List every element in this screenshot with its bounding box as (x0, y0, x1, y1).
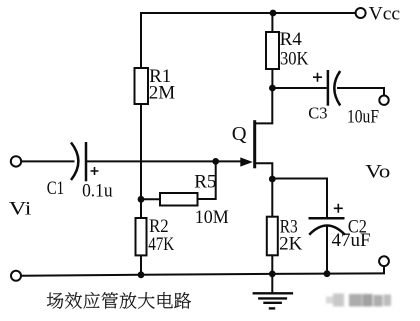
junction node top rail / R4 (270, 10, 277, 17)
resistor R4 (266, 32, 279, 69)
svg-text:2M: 2M (149, 82, 176, 103)
resistor R3 (267, 217, 278, 256)
junction node gate / R5 (212, 158, 219, 165)
resistor R1 (135, 68, 149, 104)
transistor Q gate arrow (240, 157, 253, 166)
wire gate node down to R5 (198, 161, 216, 199)
capacitor C2 positive plate (309, 217, 345, 220)
svg-text:Q: Q (232, 123, 247, 145)
plus sign C3 (313, 73, 322, 82)
plus sign C1 (91, 167, 99, 175)
wire source node down to R3 (271, 179, 273, 217)
ground bar 1 (253, 292, 294, 294)
svg-text:C1: C1 (47, 178, 64, 199)
resistor R5 (160, 193, 198, 206)
svg-text:47K: 47K (148, 234, 174, 255)
wire top supply rail (141, 12, 356, 14)
svg-text:C3: C3 (308, 104, 327, 123)
watermark blurred logo (326, 294, 391, 307)
wire C3 branch from drain node (272, 87, 326, 89)
wire R4 bottom lead (271, 69, 273, 88)
wire gate line C1 to Q (87, 160, 241, 162)
wire R4 top lead (271, 13, 273, 32)
junction node R1 / R2 / R5 (138, 196, 145, 203)
junction node R4 / C3 / drain (269, 85, 276, 92)
svg-text:Vi: Vi (9, 199, 32, 220)
wire source lead of Q (256, 163, 272, 179)
svg-text:0.1u: 0.1u (82, 181, 113, 202)
ground bar 4 (269, 307, 275, 309)
plus sign C2 (334, 204, 343, 213)
wire R5 left lead (141, 198, 160, 200)
terminal C3 output (379, 96, 388, 105)
wire C3 to output terminal (337, 88, 384, 96)
svg-text:R4: R4 (280, 29, 303, 50)
svg-text:47uF: 47uF (332, 230, 371, 251)
ground bar 2 (258, 297, 287, 299)
wire C2 branch from source node (272, 179, 327, 218)
wire R3 bottom lead (271, 255, 273, 274)
wire drain lead of Q (256, 88, 272, 123)
wire R2 bottom lead (140, 255, 142, 274)
svg-text:Vcc: Vcc (369, 3, 401, 24)
junction node R2 / bottom rail (138, 271, 145, 278)
capacitor C1 positive plate (85, 142, 88, 181)
capacitor C3 curved plate (334, 71, 340, 106)
svg-text:30K: 30K (280, 48, 309, 69)
svg-text:10uF: 10uF (347, 107, 379, 128)
ground stem (271, 274, 273, 293)
wire C2 bottom lead (326, 227, 328, 274)
transistor Q channel bar (253, 120, 256, 168)
wire bottom ground rail (21, 266, 384, 276)
junction node R3 / ground (269, 271, 276, 278)
capacitor C3 positive plate (327, 70, 330, 106)
terminal Vcc (356, 8, 366, 18)
svg-text:Vo: Vo (365, 162, 390, 183)
terminal output bottom right (379, 256, 389, 266)
ground bar 3 (263, 302, 282, 304)
svg-text:10M: 10M (195, 207, 229, 228)
capacitor C2 curved plate (309, 226, 345, 235)
junction node C2 / bottom rail (324, 270, 331, 277)
terminal bottom left (11, 271, 21, 281)
capacitor C1 curved plate (71, 143, 78, 181)
junction node source / C2 (269, 176, 276, 183)
svg-text:2K: 2K (279, 234, 303, 255)
title text FET amplifier circuit (47, 292, 191, 309)
resistor R2 (136, 218, 147, 255)
terminal input Vi (11, 156, 21, 166)
wire input to C1 (21, 160, 74, 162)
wire R1 bottom lead down to R2 (140, 104, 142, 218)
svg-text:R5: R5 (194, 171, 216, 192)
wire R1 top lead (140, 12, 142, 68)
